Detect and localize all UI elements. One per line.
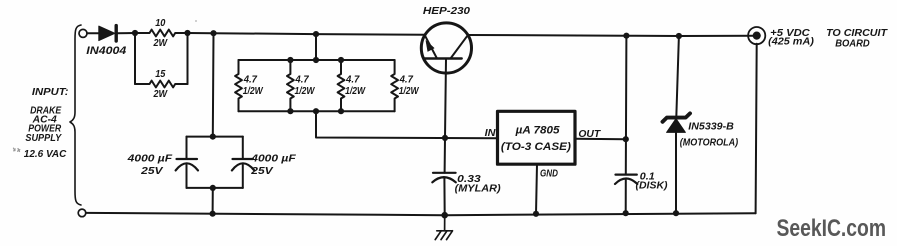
capacitor C4 0.1 DISK (615, 175, 637, 214)
svg-text:2W: 2W (153, 38, 169, 49)
resistor R1 10 2W (135, 30, 188, 37)
node F (676, 33, 682, 39)
node D (313, 31, 319, 37)
wire: resistor bank bottom rail (239, 110, 395, 112)
node bank bottom 2 (313, 108, 319, 114)
wire top: node D to transistor (316, 33, 425, 36)
svg-text:(TO-3 CASE): (TO-3 CASE) (501, 141, 571, 153)
node cap top (210, 134, 216, 140)
node C (210, 30, 216, 36)
output jack +5VDC (748, 27, 765, 44)
node cap bottom (210, 185, 216, 191)
wire: transistor base down to IN junction (445, 59, 446, 138)
wire top: terminal to diode (87, 32, 99, 34)
node IN junction (442, 135, 448, 141)
svg-text:IN5339-B: IN5339-B (688, 122, 734, 133)
zener diode CR2 1N5339-B (663, 36, 691, 213)
svg-text:INPUT:: INPUT: (32, 86, 69, 98)
node cap branch on ground rail (210, 211, 216, 217)
svg-text:(MYLAR): (MYLAR) (455, 183, 502, 195)
wire: branch down right for R2 (187, 33, 189, 84)
node zener ground (673, 210, 679, 216)
regulator U1 uA7805 box (498, 111, 576, 164)
svg-text:10: 10 (155, 18, 166, 29)
node G OUT junction (623, 136, 629, 142)
svg-text:25V: 25V (250, 165, 274, 177)
resistor R4 4.7 1/2W (287, 60, 294, 111)
wire: regulator GND down to ground rail (536, 164, 537, 214)
svg-text:IN: IN (485, 127, 496, 139)
wire: capacitor top rail (187, 136, 243, 138)
wire: node E down through node G to capacitor C4 (625, 36, 628, 175)
wire top: node E to node F (626, 35, 679, 37)
terminal input bottom (78, 209, 86, 217)
svg-text:µA 7805: µA 7805 (515, 125, 561, 137)
svg-text:(425 mA): (425 mA) (768, 35, 814, 47)
svg-text:OUT: OUT (578, 128, 601, 140)
node bank bottom 1 (287, 108, 293, 114)
node C4 ground (623, 210, 629, 216)
svg-text:4.7: 4.7 (399, 75, 414, 86)
wire top: node C to node D (214, 32, 317, 35)
svg-text:(DISK): (DISK) (636, 179, 668, 191)
svg-text:(MOTOROLA): (MOTOROLA) (680, 137, 739, 148)
svg-text:1/2W: 1/2W (345, 86, 366, 97)
node bank top 1 (287, 57, 293, 63)
wire: resistor bank top rail (239, 59, 395, 61)
svg-text:SeekIC.com: SeekIC.com (777, 215, 887, 242)
svg-text:BOARD: BOARD (835, 37, 870, 49)
svg-text:4.7: 4.7 (345, 75, 360, 86)
node bank top 3 (338, 57, 344, 63)
svg-text:4.7: 4.7 (243, 75, 258, 86)
svg-text:1/2W: 1/2W (243, 86, 264, 97)
svg-text:4000 µF: 4000 µF (127, 153, 173, 165)
svg-text:HEP-230: HEP-230 (423, 5, 470, 17)
node C3 ground (441, 212, 448, 219)
wire: node C down to capacitor bank (212, 33, 215, 136)
node bank top 2 (313, 57, 319, 63)
wire: regulator OUT to node G (575, 138, 626, 140)
svg-text:4000 µF: 4000 µF (250, 153, 296, 165)
svg-text:1/2W: 1/2W (295, 86, 316, 97)
svg-text:25V: 25V (140, 165, 164, 177)
wire top: transistor to node E (468, 34, 627, 37)
svg-text:IN4004: IN4004 (86, 45, 126, 57)
terminal input top (79, 29, 87, 37)
ground chassis symbol (435, 215, 452, 239)
svg-text:2W: 2W (153, 89, 169, 100)
wire: bank bottom down and right to regulator IN (316, 111, 498, 138)
node B (184, 30, 190, 36)
wire: cap bottom to ground rail (212, 188, 214, 214)
capacitor C3 0.33 MYLAR (432, 138, 456, 215)
svg-text:GND: GND (540, 167, 558, 179)
resistor R5 4.7 1/2W (338, 60, 345, 111)
wire top: node F to output jack (679, 35, 756, 37)
node GND rail (533, 211, 539, 217)
svg-text:15: 15 (155, 69, 166, 80)
svg-text:1/2W: 1/2W (399, 86, 420, 97)
svg-text:12.6 VAC: 12.6 VAC (24, 148, 67, 160)
wire: ground rail (86, 213, 756, 215)
resistor R3 4.7 1/2W (235, 60, 242, 111)
input brace (70, 25, 81, 205)
wire: output jack down to ground rail (756, 44, 757, 213)
transistor Q1 HEP-230 (421, 23, 471, 73)
node A (132, 30, 138, 36)
wire: capacitor bottom rail (187, 187, 243, 189)
capacitor C2 4000uF 25V (232, 137, 254, 188)
wire: diode to node A (117, 32, 135, 34)
resistor R6 4.7 1/2W (391, 60, 398, 111)
svg-text:SUPPLY: SUPPLY (25, 133, 62, 144)
node E (623, 33, 629, 39)
capacitor C1 4000uF 25V (176, 137, 198, 188)
node bank bottom 3 (338, 108, 344, 114)
resistor R2 15 2W (135, 81, 188, 88)
diode D1 IN4004 (99, 26, 116, 41)
svg-text:4.7: 4.7 (294, 75, 309, 86)
wire top: node B to node C (188, 32, 214, 34)
wire: node D down to resistor bank (315, 34, 317, 60)
wire: branch down left for R2 (134, 33, 136, 84)
